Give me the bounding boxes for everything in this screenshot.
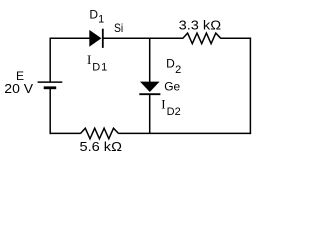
diode D1 <box>89 29 103 48</box>
wire top-left segment (battery top to D1 anode) <box>50 37 90 39</box>
battery E <box>38 82 63 88</box>
svg-text:2: 2 <box>175 64 181 76</box>
label E <box>16 69 24 83</box>
diode D2 <box>139 82 160 95</box>
wire bottom-right segment (right corner to R2) <box>118 132 251 134</box>
svg-text:D: D <box>89 7 98 21</box>
svg-text:5.6 kΩ: 5.6 kΩ <box>80 139 123 154</box>
svg-text:D: D <box>166 56 175 70</box>
label 3.3 kOhm <box>179 17 222 32</box>
wire top-right segment (R1 to right corner) <box>221 37 252 39</box>
label 20 V <box>4 81 33 96</box>
label Si <box>114 21 123 35</box>
resistor R1 3.3k zigzag <box>183 33 221 44</box>
wire left vertical lower (battery minus to bottom corner) <box>49 88 51 134</box>
wire top-middle segment (D1 cathode past junction to R1) <box>103 37 183 39</box>
svg-text:20 V: 20 V <box>4 81 33 96</box>
label D1 <box>89 7 104 25</box>
wire left vertical upper (top corner to battery plus) <box>49 38 51 83</box>
svg-text:I: I <box>87 52 91 67</box>
label D2 <box>166 56 181 76</box>
wire right vertical <box>249 38 251 135</box>
label ID1 <box>87 52 107 74</box>
label ID2 <box>161 96 181 118</box>
svg-text:1: 1 <box>98 13 104 25</box>
wire middle vertical lower (D2 cathode to bottom wire) <box>149 94 151 133</box>
label 5.6 kOhm <box>80 139 123 154</box>
wire bottom-left segment (R2 to left corner) <box>50 132 81 134</box>
label Ge <box>164 80 180 94</box>
svg-text:Si: Si <box>114 21 123 35</box>
svg-text:D2: D2 <box>167 106 181 118</box>
svg-text:Ge: Ge <box>164 80 180 94</box>
wire middle vertical upper (junction to D2 anode) <box>149 38 151 82</box>
svg-text:I: I <box>161 96 165 111</box>
svg-text:D1: D1 <box>92 61 107 73</box>
resistor R2 5.6k zigzag <box>81 128 119 139</box>
svg-text:3.3 kΩ: 3.3 kΩ <box>179 17 222 32</box>
